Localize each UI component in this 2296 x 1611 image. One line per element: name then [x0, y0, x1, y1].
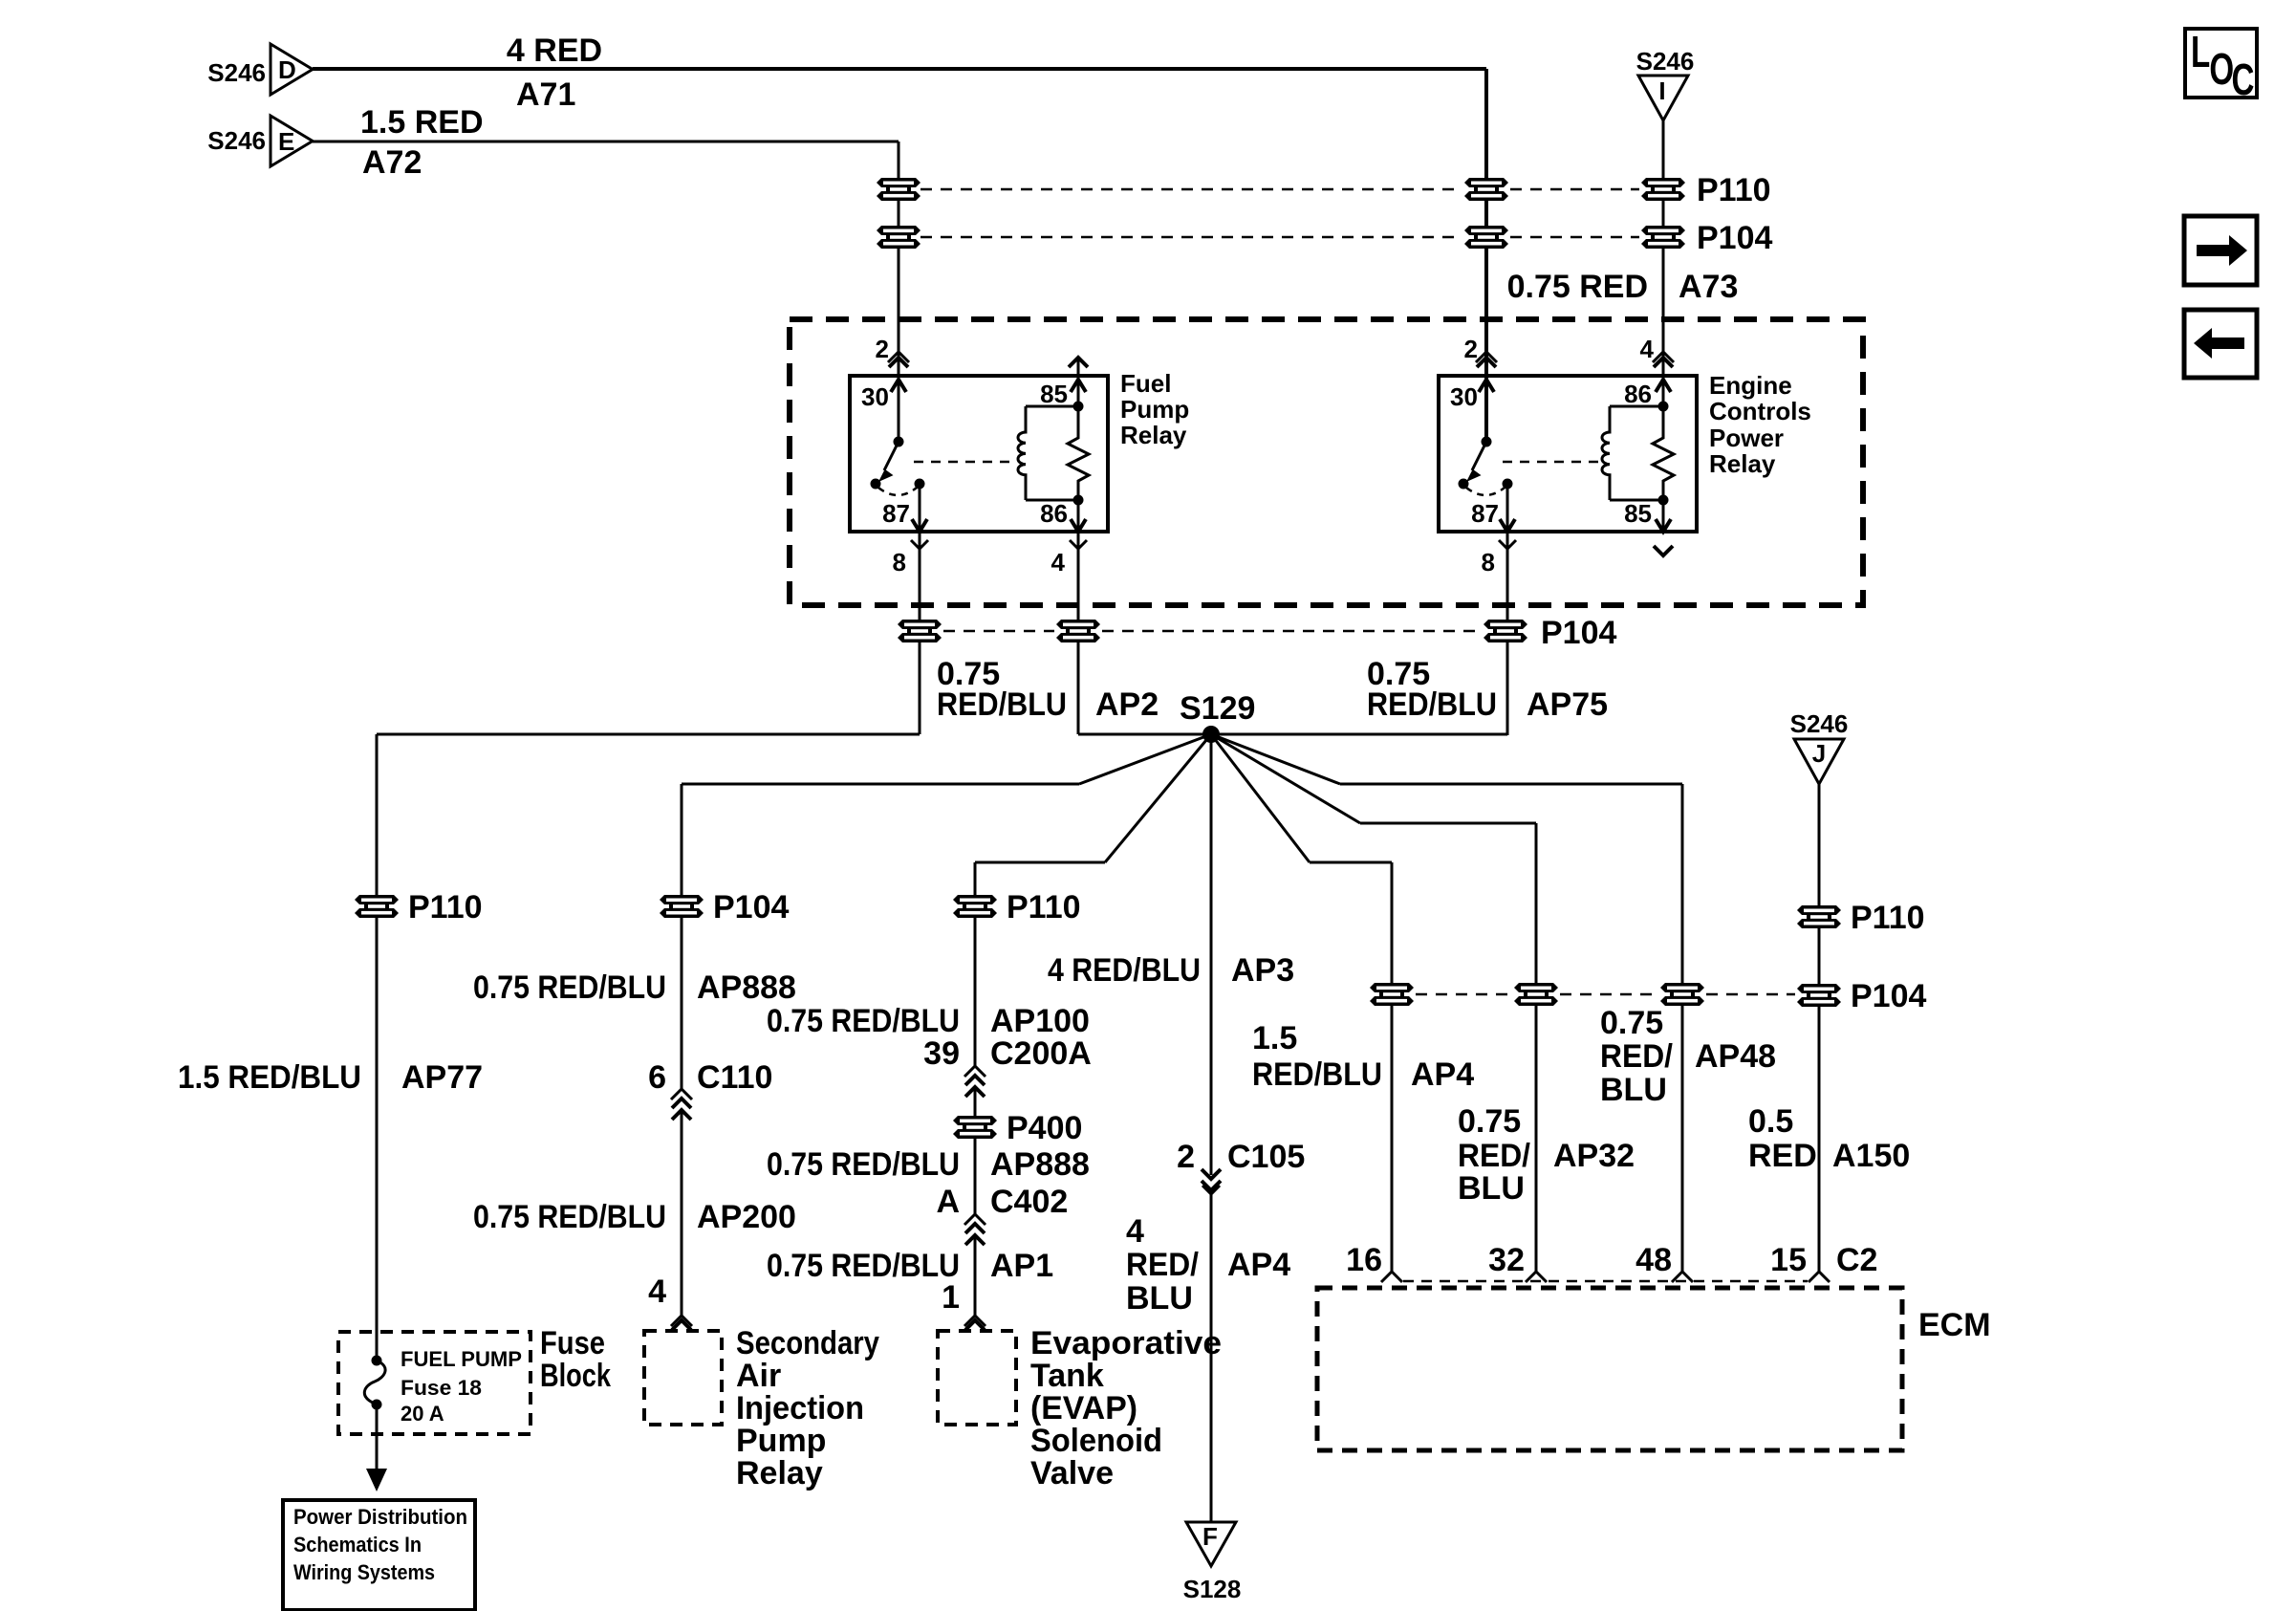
connector P104 on A150 wire [1797, 978, 1926, 1014]
svg-text:P104: P104 [1541, 615, 1616, 651]
svg-text:Fuse: Fuse [540, 1325, 605, 1361]
svg-text:Fuel: Fuel [1120, 369, 1171, 398]
svg-text:8: 8 [893, 548, 906, 577]
pin 87 fuel pump relay [882, 484, 927, 734]
wire label 0.5 RED A150 [1748, 1103, 1910, 1174]
svg-text:AP100: AP100 [990, 1003, 1090, 1039]
svg-text:1.5 RED: 1.5 RED [360, 104, 484, 141]
svg-text:AP4: AP4 [1227, 1247, 1290, 1283]
svg-text:Solenoid: Solenoid [1030, 1423, 1162, 1459]
svg-text:FUEL PUMP: FUEL PUMP [401, 1347, 522, 1371]
legend LOC box [2185, 29, 2257, 104]
svg-text:A73: A73 [1679, 269, 1738, 305]
svg-text:S129: S129 [1180, 690, 1255, 727]
svg-text:AP77: AP77 [401, 1059, 483, 1096]
wire label 0.75 RED/BLU AP48 [1600, 1005, 1776, 1108]
connector row P104 below relays dashed [943, 630, 1482, 633]
connector P104 on A73 wire [1641, 220, 1772, 256]
connector C200A pin 39 [923, 1035, 1092, 1097]
svg-text:AP1: AP1 [990, 1248, 1053, 1284]
svg-text:16: 16 [1346, 1242, 1382, 1278]
svg-text:C105: C105 [1227, 1139, 1305, 1175]
svg-text:AP200: AP200 [697, 1199, 796, 1235]
pin 86 fuel pump relay [1040, 495, 1086, 735]
svg-text:4 RED/BLU: 4 RED/BLU [1048, 952, 1201, 989]
svg-text:P110: P110 [1697, 172, 1771, 208]
svg-text:0.75 RED/BLU: 0.75 RED/BLU [473, 1199, 666, 1235]
svg-text:A: A [936, 1184, 960, 1220]
svg-text:Wiring Systems: Wiring Systems [293, 1560, 435, 1584]
pin 30 engine controls power relay [1450, 380, 1494, 411]
svg-text:AP3: AP3 [1231, 952, 1294, 989]
svg-text:C402: C402 [990, 1184, 1068, 1220]
evaporative tank solenoid valve pin 1 [942, 1279, 986, 1330]
pin 8 fuel pump relay [893, 540, 928, 577]
wire label 0.75 RED/BLU AP1 [767, 1248, 1053, 1284]
svg-text:Evaporative: Evaporative [1030, 1325, 1222, 1361]
svg-text:ECM: ECM [1918, 1307, 1991, 1343]
svg-text:O: O [2209, 46, 2234, 94]
pin 85 fuel pump relay [1040, 358, 1088, 412]
wire label 0.75 RED/BLU AP75 [1367, 656, 1608, 723]
svg-text:Block: Block [540, 1358, 611, 1394]
svg-text:4: 4 [1640, 335, 1655, 363]
wire from fuse to power distribution [366, 1404, 387, 1491]
connector row P104 mid dashed [1416, 993, 1795, 996]
svg-text:87: 87 [882, 499, 910, 528]
svg-text:D: D [278, 55, 296, 84]
svg-text:AP48: AP48 [1695, 1038, 1776, 1075]
svg-text:15: 15 [1770, 1242, 1807, 1278]
svg-text:P104: P104 [1697, 220, 1772, 256]
svg-text:C200A: C200A [990, 1035, 1092, 1072]
svg-text:4: 4 [648, 1274, 666, 1310]
ECM pin 32 [1488, 1242, 1547, 1282]
connector P104 on A72 wire [877, 226, 921, 249]
fuse block label [540, 1325, 611, 1394]
pin 2 fuel pump relay [876, 335, 909, 367]
svg-text:Engine: Engine [1709, 371, 1792, 400]
svg-text:RED: RED [1748, 1138, 1817, 1174]
svg-text:4: 4 [1126, 1213, 1144, 1250]
legend backward arrow box [2184, 310, 2257, 378]
svg-text:RED/: RED/ [1458, 1138, 1531, 1174]
off-page connector S246 J [1790, 709, 1849, 784]
svg-text:2: 2 [1464, 335, 1478, 363]
wire A73 0.75 RED [1507, 120, 1739, 406]
connector P104 on AP2 wire [898, 620, 942, 642]
svg-text:AP888: AP888 [697, 969, 796, 1006]
svg-text:20 A: 20 A [401, 1402, 444, 1426]
svg-text:Power Distribution: Power Distribution [293, 1505, 467, 1529]
coil fuel pump relay [1018, 406, 1078, 500]
svg-text:4: 4 [1051, 548, 1066, 577]
svg-text:P110: P110 [408, 889, 483, 925]
bus wire right segment [1078, 733, 1507, 736]
svg-text:Valve: Valve [1030, 1455, 1114, 1491]
svg-text:I: I [1658, 76, 1665, 105]
evaporative tank solenoid valve dashed box [938, 1325, 1222, 1491]
connector row P110 dashed [921, 188, 1639, 191]
wire label 0.75 RED/BLU AP2 [937, 656, 1159, 723]
connector P104 on AP75 wire [1484, 615, 1616, 651]
svg-text:86: 86 [1624, 380, 1652, 408]
svg-text:P104: P104 [1851, 978, 1926, 1014]
svg-text:P110: P110 [1851, 900, 1925, 936]
svg-text:1.5 RED/BLU: 1.5 RED/BLU [178, 1059, 361, 1096]
svg-text:30: 30 [1450, 382, 1478, 411]
svg-text:6: 6 [648, 1059, 666, 1096]
connector P400 on AP888 wire [953, 1110, 1082, 1146]
splice S129 junction dot [1202, 726, 1220, 743]
off-page connector S246 I [1636, 47, 1695, 120]
fan wire to AP32 column [1211, 734, 1536, 1272]
wire label 0.75 RED/BLU AP100 [767, 1003, 1090, 1039]
svg-text:J: J [1812, 739, 1826, 768]
relay K2 Engine Controls Power Relay box [1439, 371, 1811, 532]
svg-text:P110: P110 [1007, 889, 1081, 925]
coil engine controls power relay [1602, 406, 1663, 500]
svg-text:32: 32 [1488, 1242, 1525, 1278]
svg-text:1.5: 1.5 [1252, 1020, 1297, 1056]
svg-text:RED/BLU: RED/BLU [937, 686, 1067, 723]
svg-text:P104: P104 [713, 889, 789, 925]
pin 85 engine controls power relay [1624, 495, 1673, 556]
svg-text:AP4: AP4 [1411, 1056, 1474, 1093]
connector C105 pin 2 [1177, 1139, 1305, 1194]
connector P104 on AP32 wire [1514, 983, 1558, 1006]
connector P104 on A71 wire [1464, 226, 1508, 249]
svg-text:0.75 RED/BLU: 0.75 RED/BLU [767, 1248, 960, 1284]
svg-text:BLU: BLU [1126, 1280, 1193, 1317]
svg-text:Pump: Pump [736, 1423, 826, 1459]
svg-text:AP2: AP2 [1095, 686, 1159, 723]
bus wire left segment [377, 733, 920, 736]
wire label 4 RED/BLU AP4 central [1126, 1213, 1290, 1317]
svg-text:Fuse 18: Fuse 18 [401, 1376, 482, 1400]
connector P110 on A150 wire [1797, 900, 1925, 936]
svg-text:A150: A150 [1832, 1138, 1910, 1174]
svg-text:Relay: Relay [736, 1455, 823, 1491]
relay K1 Fuel Pump Relay box [850, 369, 1189, 532]
fan wire to AP100 column [975, 734, 1211, 1316]
svg-text:A71: A71 [516, 76, 575, 113]
svg-text:Air: Air [736, 1358, 781, 1394]
svg-text:AP75: AP75 [1527, 686, 1608, 723]
svg-text:C110: C110 [697, 1059, 772, 1096]
svg-text:85: 85 [1040, 380, 1068, 408]
svg-text:S246: S246 [1790, 709, 1849, 738]
svg-text:AP888: AP888 [990, 1146, 1090, 1183]
wire label 4 RED/BLU AP3 [1048, 952, 1294, 989]
svg-text:0.75 RED/BLU: 0.75 RED/BLU [473, 969, 666, 1006]
svg-text:F: F [1202, 1522, 1218, 1551]
svg-text:P400: P400 [1007, 1110, 1082, 1146]
svg-text:48: 48 [1635, 1242, 1672, 1278]
svg-text:BLU: BLU [1600, 1072, 1667, 1108]
connector P104 on AP48 wire [1660, 983, 1704, 1006]
svg-text:S246: S246 [1636, 47, 1695, 76]
svg-text:39: 39 [923, 1035, 960, 1072]
svg-text:RED/BLU: RED/BLU [1252, 1056, 1382, 1093]
svg-text:86: 86 [1040, 499, 1068, 528]
connector P104 on AP888 wire [660, 889, 789, 925]
svg-text:Power: Power [1709, 424, 1784, 452]
connector P104 on fuel relay coil wire [1056, 620, 1100, 642]
svg-text:0.75 RED/BLU: 0.75 RED/BLU [767, 1146, 960, 1183]
wire AP77 column [376, 734, 379, 1365]
svg-text:BLU: BLU [1458, 1170, 1525, 1207]
wire label 1.5 RED/BLU AP77 [178, 1059, 483, 1096]
pin 4 fuel pump relay [1051, 540, 1087, 577]
ECM pin 15 connector C2 [1770, 1242, 1877, 1282]
fan wire to AP48 column [1211, 734, 1682, 1272]
power distribution reference box [283, 1500, 475, 1610]
svg-text:0.75: 0.75 [1458, 1103, 1521, 1140]
ECM pin 16 [1346, 1242, 1402, 1282]
off-page connector F S128 [1183, 1522, 1242, 1603]
legend forward arrow box [2184, 216, 2257, 285]
resistor fuel pump relay [1068, 406, 1089, 500]
svg-text:RED/: RED/ [1600, 1038, 1674, 1075]
svg-text:0.75: 0.75 [1600, 1005, 1663, 1041]
pin 2 engine controls power relay [1464, 335, 1497, 367]
off-page connector S246 E [207, 116, 313, 166]
resistor engine controls power relay [1653, 406, 1674, 500]
svg-text:1: 1 [942, 1279, 960, 1316]
svg-text:0.5: 0.5 [1748, 1103, 1793, 1140]
svg-text:2: 2 [876, 335, 889, 363]
svg-text:(EVAP): (EVAP) [1030, 1390, 1137, 1426]
wire A71 4 RED [313, 33, 1486, 442]
svg-text:Schematics In: Schematics In [293, 1533, 422, 1557]
fuse FUEL PUMP Fuse 18 20 A [364, 1347, 522, 1426]
connector P110 on AP77 wire [355, 889, 483, 925]
wire AP3 central column [1210, 734, 1213, 1175]
connector P110 on A72 wire [877, 178, 921, 201]
svg-text:0.75 RED/BLU: 0.75 RED/BLU [767, 1003, 960, 1039]
svg-text:C: C [2231, 56, 2254, 104]
fan wire to AP888 column [682, 734, 1211, 1316]
wire label 0.75 RED/BLU AP888 lower [767, 1146, 1090, 1183]
switch contacts engine controls power relay [1459, 437, 1513, 496]
wire label 0.75 RED/BLU AP32 [1458, 1103, 1635, 1207]
wire label 0.75 RED/BLU AP888 [473, 969, 796, 1006]
connector P110 on A73 wire [1641, 172, 1771, 208]
svg-text:RED/BLU: RED/BLU [1367, 686, 1497, 723]
svg-text:S246: S246 [207, 58, 266, 87]
svg-text:E: E [278, 127, 294, 156]
fuse block dashed box [338, 1332, 531, 1434]
connector P104 on AP4 wire [1370, 983, 1414, 1006]
fan wire to AP4 column [1211, 734, 1392, 1272]
switch contacts fuel pump relay [871, 437, 925, 496]
svg-text:Injection: Injection [736, 1390, 864, 1426]
svg-text:0.75 RED: 0.75 RED [1507, 269, 1648, 305]
svg-text:4 RED: 4 RED [507, 33, 602, 69]
underhood fuse block dashed outline [790, 319, 1863, 605]
svg-text:Pump: Pump [1120, 395, 1189, 424]
svg-text:A72: A72 [362, 144, 422, 181]
svg-text:L: L [2191, 29, 2210, 76]
switch-coil link fuel pump relay [914, 461, 1015, 464]
svg-text:30: 30 [861, 382, 889, 411]
pin 4 engine controls power relay [1640, 335, 1674, 367]
ECM pin 48 [1635, 1242, 1693, 1282]
switch-coil link engine controls power relay [1503, 461, 1604, 464]
wire A150 column [1818, 784, 1821, 1272]
svg-text:Controls: Controls [1709, 397, 1811, 425]
ECM dashed box [1317, 1288, 1991, 1450]
svg-text:S128: S128 [1183, 1575, 1242, 1603]
svg-text:Tank: Tank [1030, 1358, 1104, 1394]
secondary air injection pump relay pin 4 [648, 1274, 692, 1330]
svg-text:Secondary: Secondary [736, 1325, 879, 1361]
svg-text:Relay: Relay [1709, 449, 1776, 478]
svg-text:8: 8 [1482, 548, 1495, 577]
connector C2 dashed pin row [1403, 1280, 1808, 1283]
wire label 0.75 RED/BLU AP200 [473, 1199, 796, 1235]
svg-text:C2: C2 [1836, 1242, 1877, 1278]
svg-text:RED/: RED/ [1126, 1247, 1200, 1283]
off-page connector S246 D [207, 44, 313, 95]
connector row P104 dashed [921, 236, 1639, 239]
svg-text:Relay: Relay [1120, 421, 1187, 449]
svg-text:87: 87 [1471, 499, 1499, 528]
connector P110 on A71 wire [1464, 178, 1508, 201]
svg-text:85: 85 [1624, 499, 1652, 528]
pin 86 engine controls power relay [1624, 380, 1671, 412]
svg-text:S246: S246 [207, 126, 266, 155]
svg-text:AP32: AP32 [1553, 1138, 1635, 1174]
pin 87 engine controls power relay [1471, 484, 1515, 735]
wire label 1.5 RED/BLU AP4 [1252, 1020, 1474, 1093]
connector P110 on AP100 wire [953, 889, 1081, 925]
connector C402 pin A [936, 1184, 1068, 1245]
secondary air injection pump relay dashed box [644, 1325, 879, 1491]
connector C110 pin 6 [648, 1059, 772, 1120]
svg-text:2: 2 [1177, 1139, 1195, 1175]
pin 8 engine controls power relay [1482, 540, 1516, 577]
wire A72 1.5 RED [313, 104, 899, 442]
pin 30 fuel pump relay [861, 380, 906, 411]
